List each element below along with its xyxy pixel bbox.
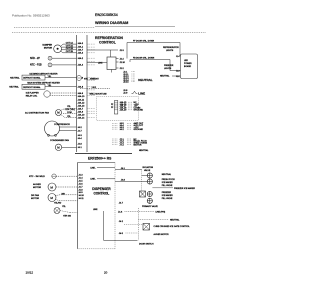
wire freezer lights [170, 60, 181, 71]
svg-text:AC DISTRIBUTION FAN: AC DISTRIBUTION FAN [25, 111, 49, 114]
svg-text:CUBE CRUSHED ICE GATE CONTROL: CUBE CRUSHED ICE GATE CONTROL [154, 225, 191, 228]
ice fan motor [48, 194, 56, 202]
svg-text:- J4-2: - J4-2 [91, 87, 97, 89]
svg-text:VALVE: VALVE [144, 169, 151, 172]
J2 pin column [123, 71, 135, 83]
svg-text:OUT 2B: OUT 2B [66, 51, 74, 53]
svg-text:FILL VALVE: FILL VALVE [162, 184, 173, 187]
ac distribution fan motor [56, 110, 62, 116]
condenser fan motor [55, 144, 61, 150]
svg-text:MOTOR: MOTOR [33, 187, 42, 189]
svg-text:FB DOOR GRL. DOWN: FB DOOR GRL. DOWN [133, 58, 155, 60]
wire relay to strip [50, 92, 76, 94]
svg-text:EW23CS85KS4: EW23CS85KS4 [95, 13, 118, 17]
svg-text:J2-10: J2-10 [120, 62, 126, 64]
isolation valve coil B [147, 179, 152, 184]
NTC P2B connector [48, 63, 52, 67]
svg-text:LINE: LINE [93, 209, 98, 211]
wire to freezer valve [115, 181, 147, 183]
svg-text:J4A-19: J4A-19 [120, 109, 128, 112]
svg-text:PRIMARY VALVE: PRIMARY VALVE [142, 205, 158, 208]
svg-text:OUT 1B: OUT 1B [66, 48, 74, 50]
svg-text:FRESH FOOD: FRESH FOOD [162, 179, 176, 181]
wire ice fan yel [56, 200, 78, 201]
svg-text:DAMPER: DAMPER [43, 44, 53, 47]
svg-text:OUT 2A: OUT 2A [66, 44, 74, 47]
svg-text:J4A-13: J4A-13 [78, 104, 86, 107]
refrigeration control line box [107, 57, 116, 70]
svg-text:J4A-4: J4A-4 [78, 64, 84, 67]
svg-text:NEUTRAL: NEUTRAL [160, 75, 170, 78]
svg-text:J4A-11: J4A-11 [78, 98, 85, 101]
svg-text:FREEZER: FREEZER [162, 192, 172, 194]
svg-text:NTC - 3W WILD: NTC - 3W WILD [29, 176, 45, 178]
svg-text:BOARD: BOARD [184, 65, 192, 68]
svg-text:NEUTRAL: NEUTRAL [170, 218, 180, 221]
svg-text:J4A-10: J4A-10 [78, 95, 86, 98]
svg-text:WH: WH [62, 193, 66, 195]
LED power board U1 [181, 54, 198, 79]
pin J2-4 [116, 58, 119, 60]
svg-text:LED: LED [184, 60, 188, 62]
svg-text:20: 20 [104, 271, 108, 275]
svg-text:NTC - P2B: NTC - P2B [30, 64, 42, 67]
wire NTC 2P [52, 57, 77, 59]
cube crush gate motor [143, 224, 150, 231]
ice flapper relay coil [44, 91, 50, 97]
wire heater2 to strip [45, 86, 77, 88]
svg-text:J1-2: J1-2 [176, 76, 180, 78]
svg-text:LIGHTS: LIGHTS [164, 68, 172, 70]
pin group J7 [120, 139, 148, 147]
svg-text:J4A-3: J4A-3 [78, 51, 84, 54]
svg-text:LINE -: LINE - [90, 167, 96, 169]
defrost heater 1 box [22, 75, 45, 80]
svg-text:NEUTRAL: NEUTRAL [138, 78, 152, 82]
svg-text:J4A-12: J4A-12 [78, 101, 86, 104]
svg-text:MOTOR: MOTOR [44, 48, 53, 50]
isolation valve coil A [147, 173, 152, 178]
NTC 3W connector [52, 174, 56, 178]
wall mount insert box [97, 97, 139, 121]
svg-text:MOTOR: MOTOR [31, 198, 40, 200]
svg-text:GROUND: GROUND [134, 110, 144, 112]
svg-text:POWER: POWER [184, 63, 192, 65]
svg-text:J1-3: J1-3 [176, 71, 180, 73]
pin group J4 [120, 122, 144, 131]
wire damper out1B [62, 49, 77, 51]
svg-text:ICE FLAPPER: ICE FLAPPER [26, 91, 40, 94]
svg-text:YEL/RD: YEL/RD [54, 202, 62, 204]
freezer fill valve coil D [147, 198, 152, 203]
header rule dotted left [14, 27, 95, 29]
svg-text:NEUTRAL: NEUTRAL [139, 149, 149, 152]
wire to valve A [142, 175, 148, 177]
svg-text:AUGER: AUGER [33, 183, 41, 186]
vertical harness dashed [141, 170, 143, 195]
wire stubs J7 [112, 138, 118, 140]
wire fan com [63, 113, 77, 115]
svg-text:NEUTRAL: NEUTRAL [162, 173, 172, 176]
wire J2-3 top [87, 49, 118, 51]
svg-text:FILL VALVE: FILL VALVE [162, 197, 173, 200]
wire FF door grille [127, 42, 180, 44]
svg-text:J4A-2: J4A-2 [78, 57, 84, 60]
svg-text:NEUTRAL: NEUTRAL [10, 76, 20, 79]
damper motor [54, 45, 62, 53]
pin J2-10 [116, 61, 119, 63]
svg-text:J4-11: J4-11 [78, 198, 84, 200]
wire refrigerator lights [179, 43, 182, 57]
wire wall mount [80, 88, 110, 90]
diagram top border [12, 32, 206, 34]
svg-text:RELAY COIL: RELAY COIL [26, 94, 38, 97]
svg-text:J4A-9: J4A-9 [78, 110, 84, 113]
svg-text:COMPRESSOR: COMPRESSOR [54, 124, 70, 126]
svg-text:J4A-1: J4A-1 [78, 45, 84, 48]
wire ice fan wh [56, 194, 78, 197]
NTC 2P connector [48, 56, 52, 60]
svg-text:LINE (PRI): LINE (PRI) [156, 211, 166, 213]
svg-text:CONDENSER FAN: CONDENSER FAN [50, 139, 69, 142]
svg-text:LINE: LINE [138, 91, 145, 95]
wire FB door grille [130, 59, 170, 61]
pin J2-2 [116, 67, 119, 69]
svg-text:Publication No. 5995512663: Publication No. 5995512663 [12, 14, 50, 18]
wire heater1 to strip [45, 77, 77, 79]
svg-text:COM: COM [67, 112, 72, 114]
wire line to control box [87, 62, 107, 64]
connector strip (left rail of refrigeration control) [77, 35, 88, 152]
svg-text:ISOLATION: ISOLATION [143, 166, 154, 169]
svg-text:DEFROST SIGNAL: DEFROST SIGNAL [23, 86, 41, 89]
compressor [45, 121, 60, 136]
svg-text:DISPENSER: DISPENSER [92, 187, 111, 191]
defrost heater 2 box [22, 84, 45, 89]
svg-text:FREEZER ICE MAKER: FREEZER ICE MAKER [174, 187, 195, 190]
section divider [75, 153, 132, 155]
svg-text:NEUTRAL: NEUTRAL [9, 86, 19, 89]
wire dispenser bottom run [137, 208, 139, 241]
svg-text:J4A-9: J4A-9 [78, 92, 84, 95]
svg-text:J4-10: J4-10 [78, 195, 84, 197]
svg-text:DR FAN: DR FAN [31, 194, 39, 197]
svg-text:DEFROST SIGNAL: DEFROST SIGNAL [23, 77, 41, 80]
page background [0, 0, 218, 285]
control box bottom stub [111, 70, 113, 73]
svg-text:ICE MAKER: ICE MAKER [162, 181, 174, 184]
svg-text:J4A-8: J4A-8 [78, 86, 84, 89]
wire compressor run [60, 126, 77, 128]
auger motor [48, 183, 56, 191]
wire condenser fan [62, 146, 77, 148]
dispenser board box [78, 163, 116, 249]
NTC ambient sensor [77, 76, 82, 81]
wire damper out2B [61, 51, 77, 53]
wire damper out1A [61, 44, 77, 46]
svg-text:J4A-14: J4A-14 [78, 116, 86, 119]
dispenser pin column [78, 175, 84, 200]
svg-text:10/12: 10/12 [26, 271, 34, 275]
wire lamp [60, 211, 70, 213]
wire auger motor [56, 186, 78, 188]
svg-text:J4A-10: J4A-10 [78, 113, 86, 116]
wire stubs J4 [112, 122, 118, 124]
svg-text:J2-15: J2-15 [123, 82, 129, 84]
wire freezer ice maker [152, 187, 173, 189]
svg-text:WIRING DIAGRAM: WIRING DIAGRAM [95, 21, 128, 25]
svg-text:REFRIGERATOR: REFRIGERATOR [163, 46, 179, 49]
svg-text:CONTROL: CONTROL [94, 192, 110, 196]
svg-text:NFD - 2P: NFD - 2P [30, 57, 40, 60]
svg-text:OUT 1A: OUT 1A [66, 41, 74, 44]
svg-text:J1-4: J1-4 [176, 56, 180, 58]
freezer fill valve coil C [147, 191, 152, 196]
svg-text:WALL MOUNT ###: WALL MOUNT ### [90, 92, 108, 95]
svg-text:DOOR SWITCH: DOOR SWITCH [139, 244, 154, 246]
svg-text:HTR SIG: HTR SIG [63, 216, 72, 218]
wire fan yel [62, 115, 77, 118]
svg-text:GROUND: GROUND [134, 129, 144, 131]
wire compressor neutral [60, 130, 77, 132]
svg-text:J4A-7: J4A-7 [78, 48, 84, 51]
svg-text:CONTROL: CONTROL [99, 41, 116, 45]
svg-text:J4A-5: J4A-5 [78, 42, 84, 45]
svg-text:FF DOOR GRL. DOWN: FF DOOR GRL. DOWN [133, 41, 155, 43]
header rule solid right [95, 26, 175, 28]
wire stubs right of strip [88, 43, 95, 45]
svg-text:ICE MAKER: ICE MAKER [162, 194, 174, 197]
wire NTC P2B [52, 64, 77, 66]
svg-text:MOTOR: MOTOR [134, 145, 142, 147]
svg-text:+12V (YEL): +12V (YEL) [65, 109, 76, 111]
svg-text:NTC - AMBIENT: NTC - AMBIENT [84, 77, 99, 80]
svg-text:LIGHTS: LIGHTS [166, 50, 174, 52]
svg-text:FREEZER: FREEZER [164, 65, 174, 67]
svg-text:LINE -: LINE - [90, 179, 96, 181]
freezer fill valve gate [140, 191, 146, 197]
insert connector [114, 101, 117, 115]
line switch symbol [132, 91, 138, 93]
wire dispenser to isolation valve [115, 169, 142, 171]
wire damper out2A [62, 46, 77, 48]
wire J4-5 stub [126, 232, 139, 234]
svg-text:J4A-7: J4A-7 [78, 107, 84, 110]
svg-text:ERF2500++ RS: ERF2500++ RS [88, 157, 112, 161]
wire NTC 3W [56, 175, 77, 177]
svg-text:AUGER MOTOR: AUGER MOTOR [154, 233, 170, 236]
wire neutral to led board [172, 75, 181, 77]
dispenser lamp [54, 208, 60, 214]
svg-text:REFRIGERATION: REFRIGERATION [95, 36, 123, 40]
wire fan +12V [62, 109, 77, 111]
